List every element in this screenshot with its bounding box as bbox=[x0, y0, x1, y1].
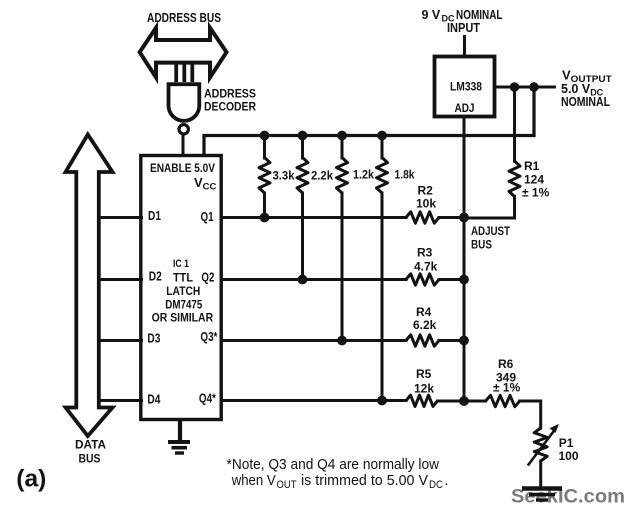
svg-text:TTL: TTL bbox=[173, 271, 193, 285]
address decoder output bubble bbox=[179, 125, 188, 134]
svg-text:INPUT: INPUT bbox=[447, 21, 480, 35]
wire Q4 row bbox=[223, 399, 407, 402]
svg-text:Q1: Q1 bbox=[201, 209, 214, 224]
svg-text:BUS: BUS bbox=[79, 452, 101, 466]
svg-text:D1: D1 bbox=[148, 208, 161, 223]
node rail-1.8k bbox=[377, 131, 387, 141]
svg-text:DATA: DATA bbox=[75, 438, 106, 452]
resistor R2 bbox=[406, 212, 439, 223]
wire 3.3k column bottom bbox=[263, 193, 266, 218]
svg-text:D2: D2 bbox=[149, 269, 162, 284]
svg-text:IC 1: IC 1 bbox=[173, 258, 189, 270]
svg-text:4.7k: 4.7k bbox=[414, 260, 438, 274]
svg-text:OUT: OUT bbox=[277, 479, 297, 491]
svg-text:124: 124 bbox=[524, 173, 544, 187]
wire D4 input bbox=[99, 399, 142, 402]
resistor R5 bbox=[406, 395, 438, 406]
resistor R4 bbox=[406, 335, 439, 346]
resistor 2.2k bbox=[297, 158, 308, 194]
svg-text:Q3*: Q3* bbox=[200, 329, 218, 344]
wire Q3 row right bbox=[439, 339, 464, 342]
node adjust-R4 bbox=[459, 336, 469, 346]
wire LM338 input bbox=[463, 37, 466, 56]
wire 1.2k column top bbox=[341, 136, 344, 159]
wire D1 input bbox=[99, 216, 142, 219]
svg-text:VCC: VCC bbox=[194, 175, 217, 193]
svg-text:.: . bbox=[444, 472, 448, 489]
resistor R3 bbox=[406, 274, 439, 285]
node output-R1 bbox=[510, 82, 520, 92]
svg-text:ADDRESS BUS: ADDRESS BUS bbox=[147, 11, 221, 25]
svg-text:D4: D4 bbox=[147, 392, 161, 407]
resistor R1 bbox=[509, 161, 520, 197]
svg-text:LM338: LM338 bbox=[450, 80, 482, 94]
data bus arrow bbox=[66, 135, 113, 437]
svg-text:6.2k: 6.2k bbox=[413, 318, 437, 332]
svg-text:ADJUST: ADJUST bbox=[471, 224, 511, 238]
wire top rail 5V bus bbox=[204, 87, 534, 154]
wire R1 bottom to adjust node bbox=[464, 197, 515, 219]
potentiometer P1 bbox=[534, 428, 547, 461]
LM338 U3 box bbox=[435, 57, 495, 117]
node Q3-1.2k bbox=[337, 336, 347, 346]
svg-text:R4: R4 bbox=[416, 305, 432, 319]
address decoder gate U1 bbox=[169, 84, 200, 121]
svg-text:BUS: BUS bbox=[471, 238, 492, 252]
wire 1.2k column bottom bbox=[341, 193, 344, 341]
wire Q2 row right bbox=[439, 278, 464, 281]
resistor R6 bbox=[486, 395, 520, 406]
svg-text:LATCH: LATCH bbox=[166, 284, 200, 298]
address bus arrow bbox=[140, 28, 227, 78]
svg-text:± 1%: ± 1% bbox=[493, 381, 521, 395]
svg-text:DM7475: DM7475 bbox=[165, 298, 202, 312]
node rail-1.2k bbox=[337, 131, 347, 141]
svg-text:12k: 12k bbox=[414, 382, 434, 396]
svg-text:9 V: 9 V bbox=[422, 8, 441, 22]
wire R1 branch bbox=[513, 87, 516, 161]
svg-text:R1: R1 bbox=[524, 159, 540, 173]
svg-text:1.2k: 1.2k bbox=[353, 168, 374, 182]
node Q2-2.2k bbox=[298, 275, 308, 285]
wire P1 to ground bbox=[539, 461, 542, 486]
resistor 1.2k bbox=[337, 158, 348, 194]
node output-rail bbox=[529, 82, 539, 92]
svg-text:R6: R6 bbox=[498, 357, 514, 371]
node rail-3.3k bbox=[260, 131, 270, 141]
node adjust-R2 bbox=[459, 213, 469, 223]
address decoder gate inputs bbox=[176, 63, 192, 82]
svg-text:OR SIMILAR: OR SIMILAR bbox=[152, 311, 214, 325]
resistor 1.8k bbox=[377, 158, 388, 194]
svg-text:NOMINAL: NOMINAL bbox=[456, 8, 503, 22]
node Q1-3.3k bbox=[260, 213, 270, 223]
svg-text:DC: DC bbox=[429, 479, 443, 491]
svg-text:Q4*: Q4* bbox=[199, 391, 217, 406]
wire Q1 row right bbox=[439, 216, 464, 219]
wire IC ground stem bbox=[178, 421, 182, 441]
svg-text:ADDRESS: ADDRESS bbox=[204, 87, 256, 101]
svg-text:R2: R2 bbox=[418, 184, 434, 198]
svg-text:DECODER: DECODER bbox=[204, 100, 256, 114]
wire Q3 row bbox=[223, 339, 407, 342]
svg-text:10k: 10k bbox=[416, 197, 436, 211]
node adjust-R3 bbox=[459, 275, 469, 285]
node rail-2.2k bbox=[298, 131, 308, 141]
svg-text:when V: when V bbox=[231, 472, 276, 489]
ground P1 bbox=[522, 489, 562, 501]
wire LM338 output bbox=[496, 86, 554, 89]
wire Q1 row bbox=[223, 216, 407, 219]
svg-text:1.8k: 1.8k bbox=[395, 168, 415, 182]
wire adjust bus vertical bbox=[463, 118, 466, 401]
svg-text:R3: R3 bbox=[417, 246, 433, 260]
wire decoder output stem bbox=[182, 136, 185, 154]
wire 1.8k column top bbox=[381, 136, 384, 159]
wire 2.2k column top bbox=[301, 136, 304, 159]
svg-text:ADJ: ADJ bbox=[455, 101, 475, 115]
svg-text:3.3k: 3.3k bbox=[273, 169, 295, 183]
IC U2 box DM7475 bbox=[141, 156, 221, 420]
svg-text:R5: R5 bbox=[416, 367, 432, 381]
svg-text:± 1%: ± 1% bbox=[522, 186, 550, 200]
svg-text:(a): (a) bbox=[16, 466, 46, 493]
wire 2.2k column bottom bbox=[301, 193, 304, 280]
svg-text:P1: P1 bbox=[559, 436, 574, 450]
svg-text:ENABLE 5.0V: ENABLE 5.0V bbox=[150, 163, 215, 175]
svg-text:is trimmed to 5.00 V: is trimmed to 5.00 V bbox=[301, 472, 428, 489]
wire D2 input bbox=[99, 278, 142, 281]
wire 3.3k column top bbox=[263, 136, 266, 159]
wire D3 input bbox=[99, 339, 142, 342]
svg-text:D3: D3 bbox=[147, 331, 160, 346]
svg-text:100: 100 bbox=[559, 449, 579, 463]
svg-text:*Note, Q3 and Q4 are normally: *Note, Q3 and Q4 are normally low bbox=[227, 456, 440, 473]
wire 1.8k column bottom bbox=[381, 193, 384, 401]
svg-text:2.2k: 2.2k bbox=[311, 169, 333, 183]
resistor 3.3k bbox=[259, 158, 270, 194]
svg-text:Q2: Q2 bbox=[201, 270, 214, 285]
wire Q2 row bbox=[223, 278, 407, 281]
node adjust-R5 bbox=[459, 396, 469, 406]
svg-text:NOMINAL: NOMINAL bbox=[561, 95, 610, 109]
potentiometer P1 arrow bbox=[528, 430, 555, 466]
wire Q4 row to P1 bbox=[520, 401, 541, 428]
node Q4-1.8k bbox=[377, 396, 387, 406]
wire Q4 row mid bbox=[438, 400, 486, 403]
ground IC bbox=[168, 442, 190, 453]
